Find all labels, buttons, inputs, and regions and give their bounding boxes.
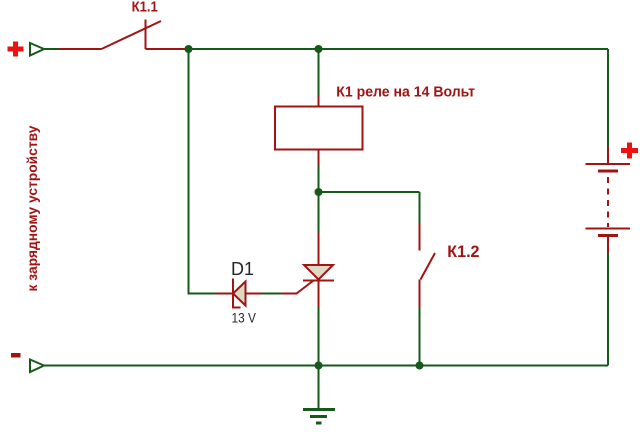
battery cell 2 short plate [598,234,618,237]
battery cell 1 long plate [586,163,631,165]
battery wire top green [607,49,609,147]
wire zener to gate red [246,293,262,295]
node junction bottom-mid [315,362,323,370]
switch K1.2 wire green top [419,192,421,224]
switch K1.2 red bottom contact [419,280,421,308]
svg-text:К1 реле на 14 Вольт: К1 реле на 14 Вольт [336,83,475,100]
wire relay bottom red pin [318,150,320,166]
wire thyristor cathode red pin [318,281,320,308]
svg-text:D1: D1 [231,259,254,279]
relay coil K1 [275,107,363,150]
battery dashed middle [607,177,609,227]
wire to K1.2 branch [319,191,420,193]
ground [303,410,335,424]
switch K1.2 red top contact [419,224,421,251]
ground lead [318,366,320,409]
plus terminal label (charger +) [8,42,24,57]
wire relay top green [318,49,320,95]
node junction bottom K1.2 [416,362,424,370]
wire thyristor anode red pin [318,233,320,266]
zener diode D1 [233,282,246,306]
battery cell 2 long plate [586,228,631,230]
battery plus label [621,143,638,159]
wire thyristor anode green [318,192,320,233]
wire relay top red pin [318,95,320,107]
battery wire bottom green [607,253,609,366]
wire left vertical to zener [189,49,217,294]
wire top-left red [59,48,102,50]
node junction top-mid [315,45,323,53]
svg-text:К1.2: К1.2 [447,242,479,261]
switch K1.2 wire green bottom [419,308,421,366]
switch K1.2 blade [421,253,436,280]
thyristor SCR [304,265,333,280]
input terminal top [30,43,44,56]
input terminal bottom [30,360,44,373]
switch K1.1 [102,20,186,50]
wire red into zener cathode [217,293,234,295]
battery cell 1 short plate [598,170,618,173]
wire gate red + diagonal [281,281,314,294]
wire thyristor cathode green [318,307,320,366]
battery wire bottom red [607,236,609,253]
wire top-left green [44,48,59,50]
wire relay bottom green [318,165,320,192]
battery wire top red [607,147,609,164]
wire top main green [189,48,609,50]
wire zener to gate green [261,293,281,295]
node junction below relay [315,188,323,196]
svg-text:13 V: 13 V [232,310,257,326]
node junction top-left [185,45,193,53]
svg-text:к зарядному устройству: к зарядному устройству [24,125,40,291]
wire bottom main green [44,365,608,367]
svg-text:К1.1: К1.1 [132,0,158,15]
minus terminal label [11,353,21,358]
